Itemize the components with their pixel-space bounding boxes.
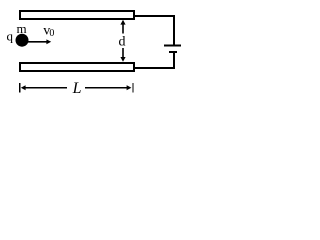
wire from battery to bottom plate [134,53,174,68]
svg-text:m: m [17,21,27,36]
svg-text:q: q [7,29,14,44]
dimension d upper arrow [120,20,125,34]
dimension L left tick [19,83,21,93]
top plate [20,11,134,19]
battery negative (short) terminal [169,51,177,53]
charged particle q [16,34,29,47]
dimension L right arrow [85,85,131,90]
svg-text:L: L [72,80,82,97]
svg-text:0: 0 [49,28,54,39]
battery positive (long) terminal [164,45,181,47]
bottom plate [20,63,134,71]
dimension L left arrow [21,85,67,90]
wire from top plate to battery [134,16,174,45]
velocity arrow v0 [28,39,51,44]
dimension d lower arrow [120,48,125,62]
svg-text:d: d [119,35,126,50]
dimension L right tick [132,83,134,93]
